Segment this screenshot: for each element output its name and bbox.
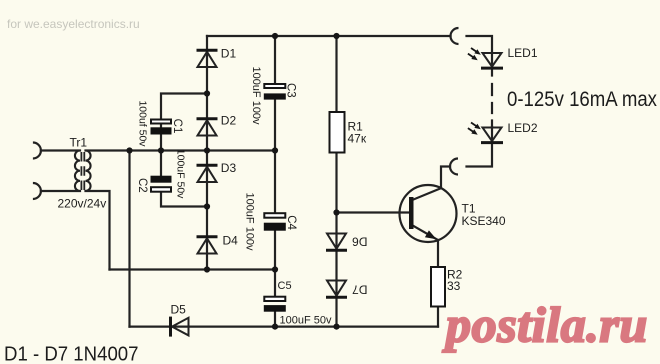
svg-text:D2: D2 bbox=[221, 114, 237, 128]
svg-text:100uF 100v: 100uF 100v bbox=[244, 192, 256, 251]
svg-text:C5: C5 bbox=[278, 280, 292, 292]
svg-text:Tr1: Tr1 bbox=[70, 136, 88, 150]
svg-text:LED1: LED1 bbox=[508, 46, 538, 60]
svg-text:for we.easyelectronics.ru: for we.easyelectronics.ru bbox=[7, 17, 140, 31]
svg-text:postila.ru: postila.ru bbox=[442, 297, 648, 353]
svg-text:D1: D1 bbox=[221, 46, 237, 60]
svg-text:D1 - D7 1N4007: D1 - D7 1N4007 bbox=[4, 344, 139, 364]
svg-text:47к: 47к bbox=[348, 132, 367, 146]
svg-text:100uF 100v: 100uF 100v bbox=[250, 66, 262, 125]
svg-text:D6: D6 bbox=[352, 234, 368, 248]
svg-text:C1: C1 bbox=[171, 119, 183, 134]
svg-text:100uF 50v: 100uF 50v bbox=[280, 314, 332, 326]
svg-text:D4: D4 bbox=[223, 233, 239, 247]
svg-text:KSE340: KSE340 bbox=[462, 214, 506, 228]
svg-text:33: 33 bbox=[447, 279, 461, 293]
svg-text:C2: C2 bbox=[136, 178, 148, 193]
svg-text:LED2: LED2 bbox=[508, 121, 538, 135]
svg-text:C3: C3 bbox=[284, 83, 296, 98]
svg-text:100uf 50v: 100uf 50v bbox=[137, 100, 149, 147]
svg-text:C4: C4 bbox=[285, 215, 297, 230]
svg-text:0-125v 16mA max: 0-125v 16mA max bbox=[507, 88, 657, 111]
svg-text:D5: D5 bbox=[171, 303, 187, 317]
svg-text:D7: D7 bbox=[352, 282, 368, 296]
svg-text:D3: D3 bbox=[221, 161, 237, 175]
svg-text:220v/24v: 220v/24v bbox=[58, 196, 107, 210]
svg-text:100uF 50v: 100uF 50v bbox=[175, 149, 187, 199]
